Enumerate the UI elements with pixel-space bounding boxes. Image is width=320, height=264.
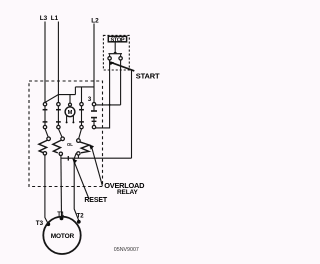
overload heater H2 [53,129,65,156]
svg-text:T2: T2 [77,213,85,219]
contactor main contact M1 [43,103,48,129]
coil M top terminal [69,103,72,106]
svg-text:L3: L3 [40,15,48,22]
reset leader arrow [74,161,89,199]
wire contact3 feed drop [81,87,83,103]
overload heater H1 [39,129,51,155]
stop terminal right [119,57,122,60]
overload heater H3 [77,129,90,159]
wire station left down to overload aux return [96,60,110,128]
wire control upper horizontal [75,86,94,88]
starter enclosure dashed box [29,81,103,187]
contactor main contact M2 [56,103,61,129]
wire aux top horizontal [96,104,121,106]
auxiliary seal-in contact 3 [91,103,97,129]
wire heater2 to motor T1 [60,155,63,218]
stop contact bar [108,53,122,55]
svg-text:L2: L2 [91,18,99,25]
junction dot [109,104,111,106]
wire return horizontal [61,157,132,159]
stop contact stems [109,54,111,56]
stop button plunger [114,42,116,51]
svg-text:05NV9007: 05NV9007 [114,247,139,253]
wire coil feed drop [69,95,71,104]
overload contact tick [67,156,69,161]
op coil M [65,107,75,117]
wire L3 line [44,22,46,103]
contactor main contact M3 [79,103,84,129]
motor body [43,217,80,254]
svg-text:OL: OL [67,142,73,147]
overload relay leader arrow [92,147,103,186]
pushbutton station dashed box [103,35,129,70]
wire heater3 to motor T2 [74,153,79,221]
start arrowhead [109,61,114,65]
motor T1 terminal dot [60,217,64,221]
wire L2 line [93,24,95,103]
wire control jog up [74,87,76,95]
coil lead left [66,115,68,121]
wire heater1 to motor T3 [45,155,48,224]
motor T3 terminal dot [46,222,50,226]
pushbutton STOP label box [108,36,126,42]
wire control tap diagonal [45,95,58,103]
svg-text:L1: L1 [51,15,59,22]
svg-text:RELAY: RELAY [117,189,138,196]
svg-text:M: M [68,110,73,116]
svg-text:T3: T3 [36,220,44,227]
svg-text:STOP: STOP [111,38,125,44]
wire start return vertical [131,71,133,159]
wire control tap horizontal [58,94,75,96]
start button bar / leader [110,62,134,71]
coil lead right [72,115,74,121]
wire station right down [120,60,122,105]
wire L1 line [57,22,59,103]
svg-text:START: START [136,71,160,80]
svg-text:MOTOR: MOTOR [51,233,75,240]
stop terminal left [108,57,111,60]
stop button nub [113,51,117,53]
svg-text:RESET: RESET [84,197,107,204]
motor T2 terminal dot [77,220,81,224]
